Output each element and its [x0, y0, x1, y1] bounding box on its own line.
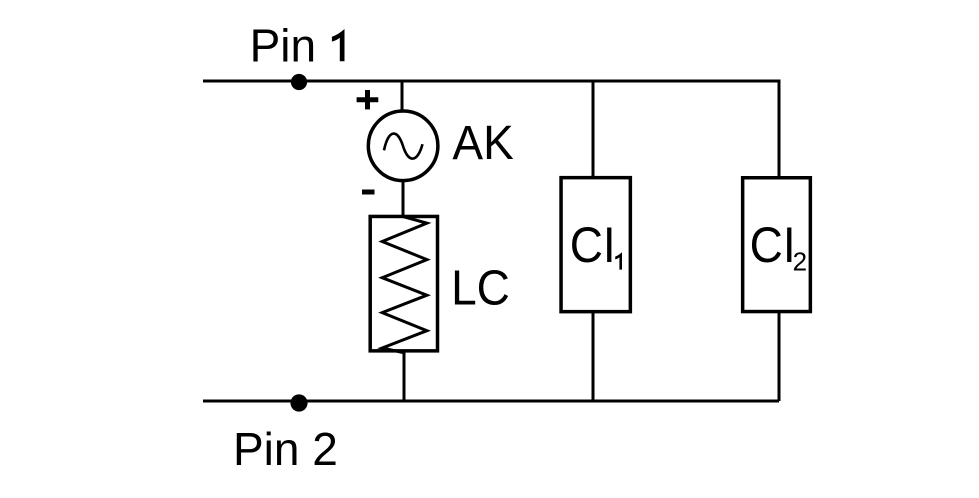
wire: top rail to source AK	[401, 81, 404, 111]
node: Pin 1 junction dot	[291, 74, 307, 90]
wire: top-right corner down to CI2	[778, 80, 781, 178]
svg-text:2: 2	[793, 247, 807, 277]
wire: bottom rail from Pin 2	[203, 400, 779, 403]
source AK: sine wave symbol	[384, 134, 423, 159]
label: LC	[451, 261, 510, 316]
node: Pin 2 junction dot	[290, 394, 307, 411]
svg-text:CI: CI	[750, 218, 796, 273]
svg-text:Pin: Pin	[250, 20, 316, 72]
resistor LC: zigzag element	[382, 217, 427, 353]
wire: resistor LC to bottom rail	[403, 351, 406, 401]
svg-text:CI: CI	[570, 218, 616, 273]
wire: CI1 to bottom rail	[592, 312, 595, 401]
wire: top rail from Pin 1	[203, 80, 779, 83]
label: CI2	[750, 218, 807, 276]
label: AK	[452, 115, 513, 169]
svg-text:AK: AK	[452, 115, 513, 169]
wire: source AK to resistor LC	[402, 181, 405, 217]
resistor LC: box outline	[370, 216, 437, 350]
label: CI1	[570, 218, 622, 273]
component CI1: box outline	[561, 178, 630, 312]
wire: CI2 to bottom rail	[778, 312, 781, 401]
svg-text:LC: LC	[451, 261, 510, 316]
wire: top rail to CI1	[592, 81, 595, 178]
source AK: plus polarity mark	[357, 90, 379, 109]
svg-text:Pin 2: Pin 2	[233, 423, 338, 475]
label: Pin 1	[250, 20, 345, 72]
source AK: circle body	[368, 111, 438, 181]
source AK: minus polarity mark	[362, 190, 375, 195]
label: Pin 2	[233, 423, 338, 475]
component CI2: box outline	[743, 178, 811, 312]
